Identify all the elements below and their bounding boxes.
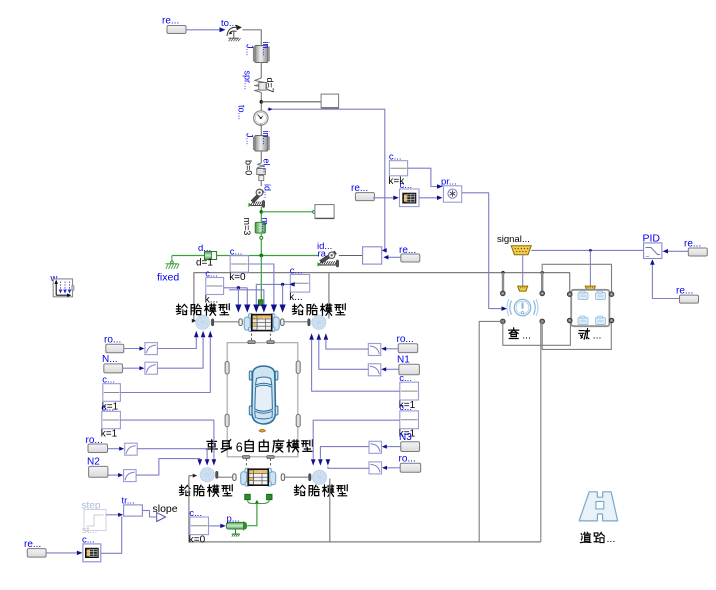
rear-left tire input arrows (three blue down) (198, 459, 217, 465)
svg-text:PID: PID (643, 233, 661, 245)
wire f2 to front-left tire arrow2 (157, 338, 203, 369)
signal block N1 (397, 354, 419, 375)
wire cha-BL to dong-BL (under labels) (503, 321, 571, 345)
product block pr1 (441, 177, 462, 203)
wire f1 to front-left tire arrow1 (157, 338, 196, 349)
torque sensor to2 (237, 105, 269, 126)
wire signal bus to PID and branches (523, 249, 644, 286)
constant c2 k... (front-left spring) (205, 269, 224, 306)
wire mass flange down to tie-rod line (260, 239, 262, 255)
wire cL2 to rear-left tire arrow3 (120, 420, 213, 459)
realExpression re5 (PID lower input) (676, 286, 699, 304)
svg-text:p...: p... (227, 514, 240, 525)
realExpression re3 (351, 183, 374, 201)
svg-text:pr...: pr... (441, 177, 457, 188)
wire mass to flange circle (260, 233, 263, 239)
svg-text:to...: to... (237, 105, 247, 120)
svg-text:c...: c... (399, 373, 412, 384)
wire rack ra1 to steering subsystem box3 (339, 255, 363, 257)
front-right tire model icon (308, 315, 326, 329)
front-right tire input arrows (three blue up) (309, 333, 328, 340)
spring-damper spr1 (steering column compliance) d=7 (243, 71, 276, 97)
wire torque sensor signal output to steering box (long blue) (268, 107, 387, 252)
first order filter f5 (mirrored) (368, 344, 381, 356)
wire cha-BR to rear bus (right drop) (540, 321, 542, 542)
front axle module (suspension table icon) (244, 314, 279, 332)
svg-text:d=7: d=7 (265, 78, 275, 93)
wire c2 to body arrows 1-2 (224, 286, 264, 304)
vehicle body 6DOF block outline (227, 343, 298, 457)
wire rack1 junction to subsystem box2 (green) (261, 210, 315, 213)
label cha (lookup model) (509, 328, 531, 342)
label body 6DOF model (206, 440, 312, 455)
wire table1 to product lower input (419, 196, 443, 201)
body connector left-bottom oval (225, 414, 229, 427)
wire J2 to elastoBacklash (260, 151, 262, 163)
wire elastoBacklash to rack1 (260, 181, 262, 187)
constant cR1 k=1 (399, 373, 419, 411)
first order filter f2 (145, 362, 158, 374)
wire cR1 to front-right tire arrow1 (312, 340, 400, 391)
svg-text:c...: c... (399, 402, 412, 413)
wire re4 to PID right input (663, 249, 689, 254)
constant c_kk k=k (388, 152, 407, 187)
signal bus connector signal1 (DB9) (497, 234, 531, 255)
svg-text:tr...: tr... (122, 496, 135, 507)
green linkage wires to position actuator (248, 500, 270, 526)
wire re5 to PID bottom input (650, 259, 679, 298)
label road model (580, 532, 615, 545)
combiTable table2 (82, 535, 101, 562)
svg-text:c...: c... (290, 266, 303, 277)
wire ro2 to f3 (108, 447, 125, 451)
svg-text:N...: N... (102, 354, 118, 365)
wire re1 to torque actuator (186, 27, 226, 32)
position actuator p1 (green) (226, 514, 247, 537)
first order filter f6 (mirrored) (368, 364, 381, 376)
brake lookup block cha (brake warning icon) (501, 291, 545, 324)
svg-text:ro...: ro... (86, 435, 103, 446)
dashed links front axle to body (252, 334, 271, 341)
rear axle right flange oval (281, 474, 284, 481)
wire f3 to rear-left tire arrow2 (137, 449, 207, 460)
svg-text:ro...: ro... (104, 335, 121, 346)
label dong (dynamics model) (579, 329, 602, 342)
svg-text:d...: d... (198, 243, 211, 254)
wire junction to subsystem box1 (261, 101, 321, 103)
svg-text:N2: N2 (87, 457, 100, 468)
wire c3 to body arrows 3 and 6 (256, 282, 294, 304)
svg-text:re...: re... (684, 239, 701, 250)
svg-text:b=0: b=0 (244, 160, 254, 175)
wire f6 to front-right tire arrow2 (319, 340, 369, 369)
svg-text:...: ... (593, 330, 602, 342)
svg-text:c...: c... (101, 402, 114, 413)
svg-text:c...: c... (205, 269, 218, 280)
wire table2 to tr1 (up) (101, 516, 122, 553)
wire J1 to springDamper (260, 63, 262, 79)
svg-text:c...: c... (189, 508, 202, 519)
svg-text:el...: el... (262, 159, 272, 174)
svg-text:6: 6 (236, 441, 243, 455)
wire torque actuator to inertia J1 (243, 30, 262, 46)
signal block N2 (87, 457, 108, 478)
rear ground bus wire (gray) (189, 474, 541, 542)
svg-text:re...: re... (399, 245, 416, 256)
body connector left-top oval (225, 362, 229, 375)
body connector top pads (248, 341, 274, 344)
subsystem box2 (steering rack position) (315, 205, 334, 219)
svg-text:spr...: spr... (243, 71, 253, 91)
wire torque sensor to inertia J2 (260, 125, 262, 135)
node A shaft junction below springDamper (260, 97, 264, 112)
step source step1 (ghost) (82, 501, 107, 537)
realExpression re2 (steering input) (399, 245, 420, 262)
rear-right tire model icon (309, 470, 327, 484)
svg-text:in...: in... (261, 42, 271, 57)
signal block ro2 (86, 435, 108, 453)
wire cha-BR to dong-BR (under labels) (542, 321, 611, 349)
label rear-left tire model (179, 485, 232, 497)
damper d1 (green) d=1 (196, 243, 217, 269)
inertia J1 (steering wheel inertia) (245, 42, 271, 63)
transmission block tr1 (122, 496, 143, 517)
constant cL2 k=1 (101, 402, 121, 439)
svg-text:d=1: d=1 (196, 258, 213, 269)
body connector bottom pads (242, 456, 274, 459)
signal block ro1 (104, 335, 124, 353)
front-left tire model icon (196, 315, 214, 329)
svg-text:...: ... (607, 533, 616, 545)
elastoBacklash el1 b=0 (244, 159, 272, 181)
brake dynamics block dong (567, 290, 613, 326)
front-left tire input arrows (three blue up) (194, 331, 213, 338)
front axle right flange oval (281, 319, 284, 326)
svg-text:k...: k... (289, 292, 302, 303)
front axle left flange oval (239, 319, 242, 326)
first order filter f1 (145, 343, 158, 355)
svg-text:m=3: m=3 (242, 218, 252, 236)
torque actuator to1 (steering torque) (221, 18, 242, 41)
wire cR2 to rear-right tire arrow1 (313, 420, 400, 459)
svg-text:J...: J... (245, 44, 255, 56)
rear axle green connector squares (245, 494, 272, 499)
dashed links body to rear axle (246, 459, 270, 468)
signal source re1 (realExpression) (162, 16, 186, 34)
constant cL1 k=1 (102, 375, 121, 413)
car top-view icon (249, 366, 278, 424)
steering subsystem box3 (363, 247, 382, 264)
dyn DB9 connector on dong block (585, 286, 595, 291)
rear axle module (suspension table icon) (241, 468, 276, 486)
wire f5 to front-right tire arrow3 (326, 340, 368, 349)
wire ro4 to f8 (382, 466, 400, 470)
realExpression re6 (bottom-left) (24, 539, 46, 557)
wire re6 to table2 (46, 551, 82, 556)
combiTable1D table1 (400, 180, 420, 207)
svg-text:c...: c... (102, 375, 115, 386)
svg-text:N3: N3 (399, 432, 412, 443)
label front-right tire model (292, 304, 345, 316)
svg-text:in...: in... (261, 131, 271, 146)
label front-left tire model (176, 304, 229, 316)
svg-text:J...: J... (245, 133, 255, 145)
label rear-right tire model (294, 485, 347, 497)
svg-text:signal...: signal... (497, 234, 530, 245)
svg-text:re...: re... (24, 539, 41, 550)
svg-text:c...: c... (82, 535, 95, 546)
lookup DB9 connector on cha block (518, 286, 528, 291)
svg-text:re...: re... (162, 16, 179, 27)
front hub bus wire (gray, tires to brake blocks) (192, 271, 570, 323)
constant cR2 k=1 (399, 402, 419, 440)
constant c3 k... (front-right spring) (289, 266, 309, 304)
fixed support (green) (157, 256, 179, 284)
wire N3 to f7 (382, 445, 401, 449)
body connector right-bottom oval (296, 414, 300, 427)
sliding mass m1 m=3 (242, 218, 270, 236)
svg-text:re...: re... (676, 286, 693, 297)
svg-text:k=0: k=0 (229, 272, 246, 283)
rear axle left flange oval (233, 474, 236, 481)
wire f8 to rear-right tire arrow3 (328, 467, 369, 469)
wire re2 to box3 (383, 255, 400, 259)
rear-right tire input arrows (three blue down) (311, 459, 330, 465)
wire ro1 to f1 (124, 346, 145, 350)
svg-text:...: ... (522, 330, 531, 342)
signal block ro4 (399, 454, 421, 473)
svg-text:c...: c... (389, 152, 402, 163)
svg-text:re...: re... (351, 183, 368, 194)
wire c1 k=0 to body arrow5 (249, 264, 274, 305)
wire c_kk to product upper input (408, 168, 443, 189)
signal block ro3 (397, 334, 418, 353)
green steering connector square on body top (258, 256, 264, 306)
wire cha-TR up-over to dong-TR (542, 264, 611, 292)
wire c_k0b to position actuator (209, 524, 226, 529)
ideal rack and pinion id1 (rotational to translational) (249, 184, 273, 208)
svg-text:ro...: ro... (397, 334, 414, 345)
slope output connector (142, 503, 177, 522)
svg-text:ro...: ro... (399, 454, 416, 465)
first order filter f3 (125, 443, 138, 455)
wire rear axle to rear-right tire (285, 476, 309, 478)
body orange connector pad (259, 429, 265, 432)
wire step1 to tr1 (106, 513, 123, 517)
wire front-left tire to front axle (214, 321, 239, 323)
wire product pr1 to brake lookup (long blue) (462, 193, 507, 311)
constant c_k0b k=0 (rear) (189, 508, 209, 546)
svg-text:m...: m... (260, 218, 270, 233)
first order filter f4 (124, 470, 137, 482)
first order filter f8 (mirrored) (369, 462, 382, 474)
inertia J2 (245, 131, 271, 152)
svg-text:N1: N1 (397, 354, 410, 365)
world gravity block w1 (50, 273, 75, 297)
wire N2 to f4 (108, 473, 123, 477)
body input arrows (six blue triangles) (235, 305, 285, 313)
wire f7 to rear-right tire arrow2 (320, 447, 369, 459)
svg-text:c...: c... (400, 180, 413, 191)
wire front axle to front-right tire (284, 321, 308, 323)
svg-text:c...: c... (230, 247, 243, 258)
signal block N1left (102, 354, 123, 373)
road block icon (579, 492, 618, 521)
rack and pinion id2 ra1 (steering rack) (317, 241, 339, 267)
rear-left tire model icon (200, 468, 218, 482)
body connector right-top oval (296, 361, 300, 374)
wire cha-BL to rear bus (left drop) (479, 321, 503, 542)
wire re3 to table1 (373, 196, 399, 201)
constant c1 k=0 (front) (229, 247, 248, 284)
green node junction below rack1 (260, 207, 264, 223)
svg-text:fixed: fixed (157, 272, 179, 284)
svg-text:id...: id... (263, 184, 273, 199)
svg-text:k=1: k=1 (101, 429, 118, 440)
wire rear-left tire to rear axle (218, 476, 233, 478)
wire f4 to rear-left tire arrow1 (136, 459, 200, 476)
wire N1 to f6 (381, 367, 399, 371)
first order filter f7 (mirrored) (369, 441, 382, 453)
signal block N3 (399, 432, 420, 452)
wire ro3 to f5 (381, 347, 398, 351)
realExpression re4 (PID setpoint) (684, 239, 707, 257)
PID controller block (643, 233, 662, 259)
wire N to f2 (123, 366, 145, 370)
svg-text:k=0: k=0 (189, 535, 206, 546)
green tie-rod horizontal wire (172, 254, 319, 258)
wire cL1 to front-left tire arrow3 (120, 338, 210, 393)
subsystem box1 (steering wheel angle block) (321, 94, 339, 108)
